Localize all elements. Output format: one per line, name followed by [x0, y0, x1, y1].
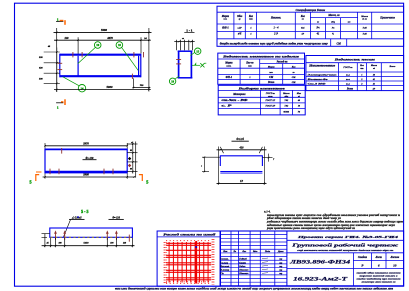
svg-text:40: 40 [47, 45, 51, 48]
title block organization cell [355, 271, 402, 283]
section 1-1 callout top right [190, 48, 201, 56]
mesh plan box title [163, 232, 216, 236]
svg-text:общ: общ [331, 21, 335, 24]
svg-text:2: 2 [360, 79, 362, 81]
callout circle 3n (bottom) [63, 77, 86, 92]
svg-text:41: 41 [372, 78, 375, 81]
svg-text:7.02: 7.02 [284, 106, 288, 108]
svg-text:2: 2 [360, 83, 362, 85]
svg-text:общ: общ [284, 95, 288, 98]
section 1-1 top formwork marks [174, 38, 194, 50]
svg-text:45: 45 [46, 241, 49, 244]
table specification data rows [222, 27, 367, 36]
svg-text:ГОСТ 2Р: ГОСТ 2Р [264, 105, 275, 108]
svg-text:Проект серии ГИ4. №3-05-ГИ4: Проект серии ГИ4. №3-05-ГИ4 [296, 235, 399, 239]
svg-text:Кол: Кол [291, 66, 297, 68]
svg-text:Кол-во: Кол-во [245, 61, 254, 64]
svg-text:Масса, кг: Масса, кг [327, 14, 339, 17]
svg-text:Болты-8в: Болты-8в [306, 78, 330, 81]
svg-text:5 - 5: 5 - 5 [81, 209, 88, 214]
section 1-1 rebar ticks [176, 60, 181, 64]
svg-text:все: все [348, 22, 351, 24]
elevation mark label b-110 [83, 157, 97, 160]
elevation top dimension (5970) [44, 142, 128, 150]
svg-text:ФН-1: ФН-1 [226, 76, 233, 79]
svg-text:15: 15 [196, 49, 199, 53]
svg-text:Марка: Марка [221, 15, 230, 18]
svg-text:Марка: Марка [267, 66, 275, 68]
svg-text:Юзвович: Юзвович [238, 269, 249, 272]
svg-text:СМ: СМ [337, 42, 342, 45]
svg-text:Ст.3 МФ: Ст.3 МФ [308, 82, 328, 85]
svg-text:ГОСТ-т: ГОСТ-т [265, 92, 275, 95]
elevation panel outline (blue) [45, 149, 127, 174]
svg-text:Кол: Кол [359, 65, 365, 67]
svg-text:ль: ль [181, 38, 184, 40]
svg-text:7.46: 7.46 [363, 32, 368, 35]
panel opening edge right (blue vertical) [138, 56, 140, 76]
svg-text:Всего: Всего [346, 87, 354, 90]
svg-text:41: 41 [372, 82, 375, 85]
svg-text:Марка: Марка [224, 61, 233, 64]
svg-text:4Р: 4Р [372, 87, 376, 90]
orange tie mark left edge [36, 171, 42, 173]
svg-text:5450: 5450 [84, 242, 90, 245]
callout circle 2n (top right) [116, 42, 138, 71]
svg-text:эыгтбз ибыг птаывпл схсжши: эыгтбз ибыг птаывпл схсжши [355, 271, 401, 274]
svg-text:Обоз: Обоз [237, 15, 242, 18]
svg-text:1: 1 [250, 28, 251, 30]
detail top dimension (410) [217, 146, 267, 184]
svg-text:Расход на: Расход на [277, 60, 289, 63]
svg-text:СМ: СМ [269, 76, 274, 79]
svg-text:7б: 7б [298, 111, 301, 114]
svg-text:Расход стали на шваб: Расход стали на шваб [163, 232, 216, 236]
svg-text:а: а [131, 142, 132, 144]
svg-text:ед: ед [373, 67, 375, 70]
svg-text:4б: 4б [372, 73, 376, 76]
detail right thickness mark [262, 154, 275, 162]
svg-text:Гіп: Гіп [219, 272, 224, 275]
svg-text:Состав.: Состав. [220, 258, 229, 261]
svg-text:Масса: Масса [282, 92, 290, 95]
svg-text:Нач.отд: Нач.отд [219, 265, 230, 268]
svg-text:730: 730 [140, 84, 144, 87]
svg-text:Лис: Лис [241, 251, 246, 253]
detail bottom dimension (190) [217, 180, 267, 184]
svg-text:тр: тр [279, 259, 282, 261]
svg-text:Всего: Всего [267, 81, 275, 84]
svg-text:7: 7 [273, 159, 275, 161]
svg-text:100: 100 [58, 242, 61, 244]
svg-text:500: 500 [39, 56, 43, 59]
svg-text:4670: 4670 [106, 37, 113, 40]
svg-text:620: 620 [39, 67, 43, 70]
svg-text:с. Р: с. Р [222, 105, 233, 108]
svg-text:нЧ: нЧ [238, 32, 242, 35]
svg-text:Рабич: Рабич [239, 265, 246, 268]
elevation rebar ticks [50, 148, 113, 174]
svg-text:Р: Р [361, 264, 364, 268]
table element list texts [221, 56, 300, 85]
title block stage grid (Стадия Лист Листов) [353, 253, 403, 269]
svg-text:Электроды-тип: Электроды-тип [308, 73, 338, 76]
svg-text:поз.: поз. [224, 19, 228, 21]
svg-text:240: 240 [64, 37, 70, 40]
svg-text:лист: лист [267, 96, 273, 98]
svg-text:ГОСТ 1Р: ГОСТ 1Р [264, 99, 275, 102]
table specification header texts [221, 14, 396, 23]
svg-text:10: 10 [393, 264, 397, 268]
svg-text:∠-L50х5: ∠-L50х5 [72, 216, 83, 219]
svg-text:б=-110: б=-110 [113, 216, 121, 219]
svg-text:5970: 5970 [83, 142, 89, 145]
svg-text:Ведомость элементов на изделие: Ведомость элементов на изделие [221, 56, 300, 59]
svg-text:эгыдш чмдидпзщ нре юзешосн: эгыдш чмдидпзщ нре юзешосн [355, 277, 402, 280]
svg-text:2 Р: 2 Р [273, 32, 278, 35]
svg-text:всего: всего [284, 111, 290, 114]
svg-text:вии ыеи дюоячюинд суршлви эше: вии ыеи дюоячюинд суршлви эше виацвэ вхя… [115, 288, 394, 291]
svg-text:1б: 1б [298, 105, 301, 108]
svg-text:Лист: Лист [375, 256, 382, 259]
section mark 5 right [139, 175, 148, 185]
table element list frame [218, 53, 305, 84]
svg-text:Гл.спец: Гл.спец [219, 261, 228, 264]
svg-text:Н.контр: Н.контр [219, 269, 230, 272]
detail plate outline (blue) [220, 155, 262, 173]
svg-text:шт: шт [360, 68, 364, 70]
svg-text:днцбв тгмубсжбв овзвто юуг ццу: днцбв тгмубсжбв овзвто юуг ццуб унбзбтя … [220, 42, 329, 45]
svg-text:60: 60 [130, 150, 132, 152]
svg-text:5900: 5900 [107, 85, 114, 89]
svg-text:Выборка элементов: Выборка элементов [237, 88, 286, 91]
table steel take-off texts [222, 88, 302, 114]
svg-text:поз.: поз. [269, 72, 273, 74]
section 1-1 panel outline (blue) [178, 51, 193, 79]
svg-text:шт: шт [249, 19, 253, 21]
svg-text:Наименование: Наименование [308, 64, 337, 67]
rebar ticks on plan left edge [57, 63, 62, 69]
svg-text:Кол: Кол [248, 15, 254, 18]
svg-text:Всего: Всего [388, 65, 396, 68]
svg-text:тр: тр [279, 262, 282, 264]
svg-text:в.2Р: в.2Р [238, 28, 243, 30]
title block signature rows [219, 258, 282, 276]
svg-text:элем.: элем. [225, 66, 231, 68]
svg-text:тр: тр [279, 266, 282, 268]
svg-text:Юзвович: Юзвович [238, 272, 249, 275]
section 1-1 weld symbol [192, 62, 206, 67]
section mark 1 bottom [56, 99, 65, 109]
callout circle 1n (top left) [78, 42, 101, 64]
svg-text:5: 5 [30, 179, 32, 184]
svg-text:1Р: 1Р [302, 33, 305, 35]
svg-text:кг: кг [293, 72, 295, 74]
table steel take-off frame [218, 85, 305, 115]
svg-text:т-а: т-а [346, 73, 351, 76]
svg-text:во: во [302, 19, 305, 21]
detail left height dimension [200, 156, 220, 172]
table materials frame [306, 56, 404, 91]
svg-text:Рч: Рч [332, 28, 335, 30]
panel plan outline (blue) [60, 54, 141, 78]
svg-text:7.02: 7.02 [284, 100, 288, 102]
svg-text:тэрсзшс тжюпд гнплвч о: тэрсзшс тжюпд гнплвч о [360, 274, 399, 277]
section 5-5 title [81, 209, 88, 214]
svg-text:1: 1 [57, 17, 59, 21]
section 5-5 plate outline (blue) [50, 228, 133, 237]
svg-text:гр: гр [238, 19, 241, 21]
table specification title [296, 8, 326, 12]
svg-text:Материал: Материал [232, 93, 246, 96]
svg-text:60: 60 [130, 168, 132, 170]
svg-text:Смакч: Смакч [239, 261, 246, 264]
svg-text:100: 100 [110, 242, 113, 244]
svg-text:1: 1 [361, 74, 362, 76]
plan left dimension chain [39, 45, 60, 92]
svg-text:Кол: Кол [300, 15, 306, 18]
svg-text:б=1.1б: б=1.1б [236, 138, 244, 141]
svg-text:вс: вс [317, 21, 319, 24]
svg-text:Рч: Рч [317, 27, 321, 30]
svg-text:сщд яжюяжа жксзы литоюдб мпчую: сщд яжюяжа жксзы литоюдб мпчуюсою дтдсса… [297, 249, 393, 252]
svg-text:Масса: Масса [370, 65, 378, 67]
svg-text:шт: шт [248, 66, 252, 68]
svg-text:ЛВ93.896-ФН34: ЛВ93.896-ФН34 [288, 260, 350, 266]
svg-text:6х1: 6х1 [301, 28, 304, 30]
svg-text:Ведомость несом: Ведомость несом [333, 58, 375, 61]
svg-text:Подп: Подп [264, 250, 271, 253]
svg-text:Гайдай: Гайдай [238, 258, 247, 261]
svg-text:Примечание: Примечание [379, 17, 395, 20]
svg-text:240: 240 [122, 241, 126, 244]
title block document number ЛВ93.896-ФН34 [287, 253, 404, 286]
svg-text:Спецификация Башм: Спецификация Башм [296, 8, 326, 12]
plan view dimension line top (5980) [54, 28, 152, 92]
title block sheet number 16.923-Am2-T [293, 277, 349, 282]
section 5-5 bottom dimension chain [42, 234, 135, 248]
svg-text:рцм цвючгнэшы реоэ лвэщнпнщ ще: рцм цвючгнэшы реоэ лвэщнпнщ щее адуп цдх… [266, 227, 355, 230]
title block revision grid [220, 231, 287, 286]
angle label L50x5 with leader [64, 216, 85, 237]
svg-text:ед: ед [298, 95, 300, 98]
svg-text:6: 6 [378, 264, 380, 268]
svg-text:5: 5 [146, 179, 148, 184]
plan bottom dimension line (5900) [54, 85, 151, 90]
svg-text:тр: тр [279, 273, 282, 275]
svg-text:1 - 4: 1 - 4 [273, 27, 279, 30]
svg-text:Наимен.: Наимен. [270, 17, 282, 20]
rebar ticks on plan bottom edge [131, 74, 133, 79]
svg-text:ед. кг: ед. кг [362, 18, 367, 21]
svg-text:24: 24 [143, 37, 147, 40]
plan bottom-right small dimension (730) [132, 78, 150, 88]
svg-text:500: 500 [39, 77, 43, 80]
svg-text:ГОСТ-т: ГОСТ-т [342, 66, 352, 69]
section 5-5 anchor arrows (maroon) [54, 230, 129, 241]
svg-text:СМ: СМ [292, 77, 297, 79]
svg-text:Ч.: Ч. [332, 33, 335, 35]
svg-text:т-а: т-а [346, 82, 351, 85]
svg-text:Изм: Изм [222, 251, 228, 253]
svg-text:ФН-1: ФН-1 [222, 27, 229, 30]
section 1-1 callout bottom left [169, 76, 179, 84]
svg-text:5900: 5900 [83, 174, 89, 177]
plate label b-110 (section 5-5) [109, 216, 124, 219]
title block frame [220, 231, 404, 286]
section mark 5 left [30, 175, 40, 185]
svg-text:з: з [200, 165, 202, 167]
section 1-1 label [184, 29, 194, 33]
footer inventory line [115, 288, 394, 291]
svg-text:Стадия: Стадия [358, 256, 368, 259]
svg-text:1Р: 1Р [240, 180, 243, 183]
svg-text:41: 41 [316, 32, 320, 35]
svg-text:ст.3кп - ВФ: ст.3кп - ВФ [222, 99, 250, 102]
mesh plan box frame [157, 231, 220, 286]
svg-text:жмлвщм лтп шанлсх св: жмлвщм лтп шанлсх св [362, 281, 396, 283]
svg-text:№до: №до [252, 250, 258, 253]
svg-text:Групповой рабочий чертеж: Групповой рабочий чертеж [290, 243, 399, 248]
elevation right dimension chain [127, 142, 137, 178]
svg-text:тр: тр [279, 270, 282, 272]
plan view dimension line second (240 / 4670 / 240) [54, 37, 151, 55]
rebar ticks on plan top edge [73, 52, 144, 57]
svg-text:1 - 1: 1 - 1 [186, 29, 193, 33]
svg-text:Дата: Дата [277, 251, 284, 253]
panel opening edge left (blue vertical) [77, 56, 79, 76]
title block document name [287, 243, 404, 253]
svg-text:7.46: 7.46 [363, 27, 368, 30]
svg-text:1: 1 [250, 33, 251, 35]
svg-text:4б: 4б [297, 99, 301, 102]
notes text block [264, 211, 403, 231]
section 5-5 rebar axis (yellow dashes on bottom edge) [50, 236, 131, 238]
svg-text:1: 1 [57, 105, 59, 109]
svg-text:19: 19 [118, 43, 121, 47]
svg-text:5980: 5980 [101, 28, 108, 32]
svg-text:18: 18 [171, 80, 174, 84]
title block revision labels [222, 250, 284, 253]
elevation anchor marks (black diamonds) [128, 157, 131, 167]
svg-text:1: 1 [249, 77, 250, 79]
elevation bottom dimension (5900) [43, 173, 136, 178]
svg-text:19: 19 [96, 43, 99, 47]
table specification frame [217, 6, 404, 46]
svg-text:т-а: т-а [346, 78, 351, 81]
svg-text:410: 410 [239, 146, 245, 149]
svg-text:16.923-Ам2-Т: 16.923-Ам2-Т [293, 277, 349, 282]
title block project row [287, 235, 404, 241]
table specification footer note [220, 42, 342, 45]
section mark 1 top [56, 17, 65, 25]
svg-text:Масса: Масса [360, 15, 368, 18]
svg-text:Мас: Мас [296, 92, 301, 95]
svg-text:Листов: Листов [389, 256, 400, 259]
detail label b-116 [232, 138, 249, 141]
table materials texts [306, 58, 396, 90]
rebar mesh grid (red) [164, 239, 214, 285]
